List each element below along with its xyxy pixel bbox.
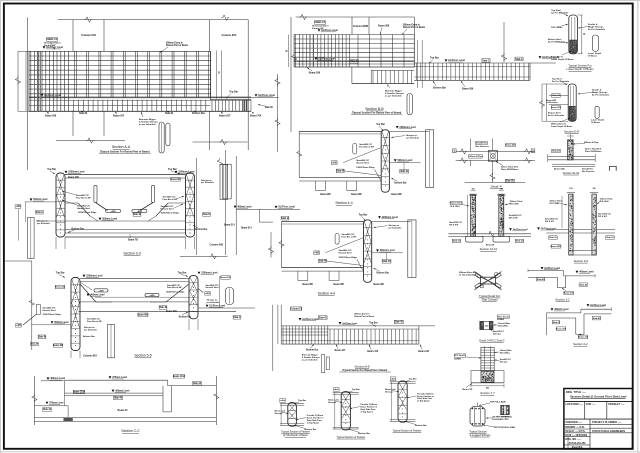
svg-text:Plate 250/250mm: Plate 250/250mm (585, 150, 602, 153)
svg-text:Beam-308: Beam-308 (309, 72, 321, 75)
svg-text:Beam-207: Beam-207 (219, 115, 231, 118)
svg-text:150: 150 (471, 189, 474, 191)
svg-text:Beam-55A: Beam-55A (554, 168, 565, 171)
svg-text:Top Bar: Top Bar (352, 389, 360, 391)
svg-text:Column-603B: Column-603B (353, 25, 369, 28)
svg-text:Bottom Bar: Bottom Bar (415, 424, 427, 427)
svg-text:TOP FULL BAR: TOP FULL BAR (490, 401, 506, 404)
svg-text:As Per Schedule: As Per Schedule (548, 41, 566, 44)
svg-text:D: D (286, 50, 288, 53)
svg-text:RCC Stud-C: RCC Stud-C (454, 354, 466, 357)
svg-text:Beam-9SC: Beam-9SC (137, 315, 149, 317)
svg-text:Section 7-7: Section 7-7 (480, 391, 495, 395)
svg-text:Face Bar at S/F: Face Bar at S/F (87, 320, 103, 323)
svg-text:S/F & S/F: S/F & S/F (545, 221, 555, 223)
svg-text:Beam-9W: Beam-9W (351, 194, 362, 196)
svg-text:Beam-238: Beam-238 (220, 277, 231, 279)
svg-text:Slab-40: Slab-40 (43, 408, 52, 411)
svg-text:Slab-U: Slab-U (553, 322, 560, 324)
svg-text:400mm Level: 400mm Level (579, 271, 594, 274)
svg-text:STRUCTURAL ENGINEERS: STRUCTURAL ENGINEERS (592, 429, 625, 433)
svg-text:Face Bar at S/F: Face Bar at S/F (76, 196, 92, 199)
svg-text:Beam-207: Beam-207 (113, 115, 125, 118)
svg-text:4-LEGGED CPPL: 4-LEGGED CPPL (492, 418, 509, 421)
svg-text:In Elevation: In Elevation (546, 101, 558, 104)
svg-text:(Typical Section For Raised Pa: (Typical Section For Raised Part of Beam… (100, 150, 150, 153)
svg-text:Beam-9W: Beam-9W (320, 194, 331, 196)
svg-text:400mm Level: 400mm Level (237, 205, 252, 208)
svg-text:Slab-D: Slab-D (203, 214, 211, 216)
svg-text:Slab-42: Slab-42 (319, 316, 328, 319)
svg-text:Bottom Bar: Bottom Bar (195, 228, 207, 231)
svg-text:Slab-55: Slab-55 (506, 181, 515, 183)
svg-text:Slab-42: Slab-42 (193, 382, 202, 385)
svg-text:Sheet N/A: Sheet N/A (572, 446, 583, 449)
svg-text:As Per Schedule: As Per Schedule (551, 11, 569, 14)
svg-text:Nut Fastener: Nut Fastener (582, 170, 595, 173)
svg-text:Top Bar: Top Bar (430, 57, 439, 60)
svg-text:Lower Depth Of Beam: Lower Depth Of Beam (551, 58, 574, 61)
svg-text:Slab-W: Slab-W (336, 171, 345, 173)
svg-text:Beam-9W: Beam-9W (303, 284, 314, 286)
svg-text:2200mm Level: 2200mm Level (399, 126, 416, 129)
svg-text:+4D0: +4D0 (110, 210, 116, 213)
svg-text:S/F & S/F: S/F & S/F (449, 224, 459, 226)
svg-text:GL/Floor Level: GL/Floor Level (46, 46, 63, 49)
svg-text:Beam-214: Beam-214 (224, 223, 235, 226)
svg-text:1500/700mm Ridge: 1500/700mm Ridge (356, 167, 375, 169)
svg-text:DRAWN :— N.N.: DRAWN :— N.N. (565, 426, 584, 429)
svg-text:Section 5-5: Section 5-5 (134, 353, 151, 357)
svg-text:Section 10-10: Section 10-10 (480, 247, 498, 251)
svg-text:+4sb: +4sb (280, 399, 286, 402)
svg-text:Bottom Bar: Bottom Bar (433, 87, 446, 90)
svg-text:Lower Depth Of Beam: Lower Depth Of Beam (551, 125, 573, 128)
svg-text:Slab-C: Slab-C (350, 60, 358, 63)
svg-text:Beam-234: Beam-234 (55, 286, 66, 289)
svg-text:Haunch Steel: Haunch Steel (206, 286, 219, 289)
svg-text:Bottom Bar: Bottom Bar (358, 432, 370, 435)
svg-text:1500/700mm Ridge: 1500/700mm Ridge (78, 212, 97, 214)
svg-text:Haunch Steel: Haunch Steel (161, 207, 174, 210)
svg-text:Top Bar: Top Bar (178, 271, 187, 274)
svg-text:Stirrups: Stirrups (493, 332, 502, 335)
svg-text:S/F & S/F: S/F & S/F (509, 217, 519, 219)
svg-text:Bottom Bar: Bottom Bar (83, 335, 95, 338)
svg-text:Slab-W: Slab-W (319, 261, 328, 263)
svg-text:as per Schedule: as per Schedule (139, 124, 156, 126)
svg-text:RCC Stud-C: RCC Stud-C (497, 315, 510, 318)
svg-text:Section 1-1: Section 1-1 (555, 297, 570, 301)
svg-text:Slab-W: Slab-W (31, 344, 39, 346)
svg-text:per Schedule: per Schedule (37, 222, 51, 225)
svg-text:Slab-W: Slab-W (38, 337, 47, 339)
svg-text:Section 8-8: Section 8-8 (355, 365, 370, 369)
svg-text:+4sb: +4sb (334, 388, 340, 391)
svg-text:D50: D50 (486, 387, 489, 389)
svg-text:Slab-40: Slab-40 (537, 278, 545, 281)
svg-text:DATE :— 06/07/2009: DATE :— 06/07/2009 (565, 434, 587, 437)
svg-text:As Per Schedule: As Per Schedule (552, 80, 570, 83)
svg-text:Section C-C: Section C-C (121, 429, 140, 433)
svg-text:Beam-415: Beam-415 (367, 350, 378, 353)
svg-text:Beam-7W: Beam-7W (463, 389, 474, 391)
svg-text:+400: +400 (314, 251, 320, 254)
svg-text:150: 150 (592, 188, 595, 190)
svg-text:RCC Wall: RCC Wall (550, 203, 560, 205)
svg-text:as per Schedule: as per Schedule (302, 358, 319, 361)
svg-text:Beam-9W: Beam-9W (391, 194, 402, 196)
svg-text:Top Bar: Top Bar (56, 272, 65, 275)
svg-text:RCC Wall: RCC Wall (510, 203, 520, 205)
svg-text:Top Bar: Top Bar (409, 378, 417, 380)
svg-text:2200mm Level: 2200mm Level (382, 216, 399, 219)
svg-text:D: D (584, 33, 586, 36)
svg-text:Beam-306: Beam-306 (462, 88, 474, 91)
svg-text:Top Bar: Top Bar (229, 91, 238, 94)
svg-text:PROJECT :—: PROJECT :— (608, 402, 625, 406)
svg-text:Typical Section: Typical Section (469, 429, 487, 433)
svg-text:per Schedule: per Schedule (406, 136, 420, 139)
svg-text:Typical Section of Fasteer: Typical Section of Fasteer (337, 436, 366, 439)
svg-text:Typical Detail For: Typical Detail For (479, 294, 500, 298)
svg-text:400mm Level: 400mm Level (50, 377, 65, 380)
svg-text:Top Bar: Top Bar (369, 322, 378, 324)
svg-text:Section A-A: Section A-A (112, 145, 131, 149)
svg-text:Slab-42: Slab-42 (395, 321, 404, 324)
svg-text:Face Bar at S/F: Face Bar at S/F (342, 236, 358, 239)
svg-text:Typical Section For: Typical Section For (568, 63, 591, 67)
svg-text:400mm Level: 400mm Level (554, 308, 569, 311)
svg-text:Bottom Bar: Bottom Bar (377, 271, 389, 274)
svg-text:LOCATION :—: LOCATION :— (565, 402, 583, 406)
svg-text:50B/B C/C: 50B/B C/C (315, 22, 326, 24)
svg-text:Top Bar: Top Bar (47, 168, 56, 171)
svg-text:Nut Fastener: Nut Fastener (476, 145, 489, 148)
svg-text:Slab-10: Slab-10 (453, 241, 461, 243)
svg-text:CHECKED :—: CHECKED :— (565, 421, 582, 424)
svg-text:As Per Schedule: As Per Schedule (592, 94, 610, 97)
svg-text:Bottom Bar: Bottom Bar (72, 227, 84, 230)
svg-text:RCC Beam: RCC Beam (551, 27, 562, 29)
svg-text:+4sb: +4sb (391, 377, 397, 380)
svg-text:Plate 250/250mm: Plate 250/250mm (501, 168, 518, 171)
svg-text:Top Bar: Top Bar (298, 400, 306, 402)
svg-text:+D0: +D0 (485, 378, 489, 380)
svg-text:Slab-42: Slab-42 (593, 317, 601, 320)
svg-text:1500/700mm Ridge: 1500/700mm Ridge (339, 257, 358, 259)
svg-text:Beam-417: Beam-417 (335, 349, 346, 352)
svg-text:Beam-55A: Beam-55A (505, 144, 516, 147)
svg-text:2200mm Level: 2200mm Level (86, 275, 103, 278)
svg-text:Beam-W: Beam-W (486, 244, 494, 246)
svg-text:400mm Level: 400mm Level (90, 294, 105, 297)
svg-text:@ Eqt Space: @ Eqt Space (417, 400, 430, 403)
svg-text:Section 3-3: Section 3-3 (123, 252, 140, 256)
svg-text:Slab-C: Slab-C (233, 317, 241, 319)
svg-text:GL/Floor Level: GL/Floor Level (448, 59, 465, 62)
svg-text:GL/Floor Level: GL/Floor Level (258, 94, 275, 97)
svg-text:@ Eqt Space: @ Eqt Space (307, 421, 320, 424)
svg-text:Beam-9W: Beam-9W (334, 284, 345, 286)
svg-text:Beam-306: Beam-306 (378, 25, 390, 28)
svg-text:+4D0: +4D0 (98, 289, 104, 292)
svg-text:Raised Part of Beam: Raised Part of Beam (403, 26, 425, 29)
svg-text:Slab-24: Slab-24 (400, 170, 409, 173)
svg-text:per Schedule: per Schedule (389, 227, 403, 230)
svg-text:230MM: 230MM (454, 358, 461, 360)
svg-text:Slab-W: Slab-W (133, 214, 142, 216)
svg-text:2200mm Level: 2200mm Level (178, 171, 195, 174)
svg-text:Beam-9W: Beam-9W (53, 345, 64, 347)
svg-text:Column 604: Column 604 (81, 33, 96, 37)
svg-text:Column 608: Column 608 (210, 243, 224, 246)
svg-text:+400: +400 (16, 324, 22, 327)
svg-text:2200mm Level: 2200mm Level (68, 171, 85, 174)
svg-text:Typical Section of Fasteer: Typical Section of Fasteer (393, 429, 422, 432)
svg-text:Slab-W: Slab-W (159, 307, 168, 309)
svg-text:Slab-W: Slab-W (165, 112, 174, 115)
svg-text:per Schedule: per Schedule (84, 329, 98, 332)
svg-text:Slab-40: Slab-40 (114, 397, 123, 400)
svg-text:Slab Cutroad: Slab Cutroad (482, 297, 498, 301)
svg-text:Column 604: Column 604 (222, 33, 237, 37)
svg-text:230MM: 230MM (497, 319, 504, 321)
svg-text:Top Bar: Top Bar (168, 168, 177, 171)
svg-text:Detail Of RCC Stud-C: Detail Of RCC Stud-C (479, 339, 504, 343)
svg-text:GL/Floor Level: GL/Floor Level (321, 29, 338, 32)
svg-text:Section D-D: Section D-D (564, 129, 579, 133)
svg-text:150mm Thick: 150mm Thick (450, 203, 464, 205)
svg-text:Beam-050: Beam-050 (551, 107, 562, 109)
svg-text:1500/700mm Ridge: 1500/700mm Ridge (43, 314, 62, 316)
svg-text:Slab-42: Slab-42 (580, 283, 588, 286)
svg-text:S/F & S/F: S/F & S/F (598, 216, 608, 218)
svg-text:Slab-10: Slab-10 (549, 237, 557, 239)
svg-text:Top Bar: Top Bar (376, 123, 385, 126)
svg-text:Beam-9W: Beam-9W (374, 284, 385, 286)
svg-text:Slab-W: Slab-W (265, 106, 274, 109)
svg-text:as per Schedule: as per Schedule (385, 96, 402, 98)
svg-text:280mm A Pipe: 280mm A Pipe (584, 141, 599, 144)
svg-text:Beam-W10: Beam-W10 (550, 246, 562, 248)
svg-text:Face Bar at S/F: Face Bar at S/F (359, 146, 375, 149)
svg-text:Slab-B: Slab-B (281, 218, 289, 220)
svg-text:M.S. Wall: M.S. Wall (600, 201, 609, 203)
svg-text:Slab-10: Slab-10 (516, 241, 524, 243)
svg-text:4-Legged Stirrups: 4-Legged Stirrups (470, 433, 491, 437)
svg-text:Beam-704: Beam-704 (250, 115, 262, 118)
svg-text:500mm Level: 500mm Level (397, 159, 412, 162)
svg-text:(Typical Section For Raised Pa: (Typical Section For Raised Part of Beam… (342, 369, 387, 372)
svg-text:+4D0: +4D0 (149, 294, 155, 297)
svg-text:Slab-D4: Slab-D4 (382, 260, 391, 263)
svg-text:Haunch Steel: Haunch Steel (356, 162, 369, 165)
svg-text:per Schedule: per Schedule (207, 301, 221, 304)
svg-text:Beam-2f8: Beam-2f8 (171, 179, 182, 181)
svg-text:D: D (218, 71, 220, 74)
svg-text:(Typical Section For Raised Pa: (Typical Section For Raised Part of Beam… (352, 111, 402, 114)
svg-text:Beam-7B: Beam-7B (128, 239, 138, 241)
svg-text:@ Mid-Depth of Beam: @ Mid-Depth of Beam (283, 434, 308, 437)
svg-text:Slab-60: Slab-60 (552, 151, 560, 153)
svg-text:per Schedule: per Schedule (201, 181, 215, 184)
svg-text:Raised Part of Beam: Raised Part of Beam (166, 44, 188, 47)
svg-text:Beam-110: Beam-110 (578, 337, 589, 339)
svg-text:Beam-110: Beam-110 (564, 293, 575, 295)
svg-text:1500/700mm Ridge: 1500/700mm Ridge (166, 291, 185, 293)
svg-text:Raised Part of Beam: Raised Part of Beam (354, 315, 374, 318)
svg-text:1500/700mm Ridge: 1500/700mm Ridge (161, 212, 180, 214)
svg-text:Section 2-2: Section 2-2 (573, 342, 588, 346)
svg-text:Slab-C: Slab-C (515, 58, 523, 61)
svg-text:Beam-118: Beam-118 (418, 351, 429, 353)
svg-text:Stirrups: Stirrups (500, 360, 509, 363)
svg-text:2200mm Level: 2200mm Level (201, 272, 218, 275)
svg-text:Bottom Bar: Bottom Bar (192, 112, 205, 115)
svg-text:Haunch Steel: Haunch Steel (43, 309, 56, 312)
svg-text:500mm Level: 500mm Level (102, 217, 117, 220)
svg-text:Beam-40: Beam-40 (118, 409, 129, 412)
svg-text:Haunch Steel: Haunch Steel (339, 252, 352, 255)
svg-text:M.S. Wall: M.S. Wall (451, 206, 460, 208)
svg-text:Of Beam: Of Beam (588, 56, 597, 58)
svg-text:Beam-70S: Beam-70S (556, 328, 567, 330)
svg-text:Slab-04: Slab-04 (552, 94, 560, 97)
svg-text:Beam-206: Beam-206 (45, 115, 57, 118)
svg-text:As Per Schedule: As Per Schedule (548, 114, 565, 117)
svg-text:GL/Floor Level: GL/Floor Level (318, 57, 335, 60)
svg-text:275mm Level: 275mm Level (112, 376, 127, 379)
svg-text:Beam-110A: Beam-110A (173, 375, 186, 378)
svg-text:100mm A Pipe: 100mm A Pipe (468, 155, 483, 158)
svg-text:Face Bar at S/F: Face Bar at S/F (163, 198, 179, 201)
svg-text:Section 4-4: Section 4-4 (335, 201, 352, 205)
svg-text:Sections Detail @ Ground Floor: Sections Detail @ Ground Floor Slab Leve… (570, 395, 627, 399)
svg-text:Slab-C: Slab-C (36, 212, 44, 214)
svg-text:50B/B C/C: 50B/B C/C (47, 39, 58, 41)
svg-text:Bottom Bar: Bottom Bar (306, 348, 318, 351)
svg-text:Section B-B: Section B-B (365, 107, 384, 111)
svg-text:Bottom Bar: Bottom Bar (179, 316, 191, 319)
svg-text:Column-C8: Column-C8 (290, 308, 303, 310)
svg-text:Bottom Bar: Bottom Bar (394, 181, 406, 184)
svg-text:500mm Level: 500mm Level (380, 249, 395, 252)
svg-text:Lower Depth Of Beam: Lower Depth Of Beam (566, 67, 594, 71)
svg-text:+400: +400 (15, 205, 21, 208)
svg-text:50m@Max: 50m@Max (498, 326, 509, 328)
svg-text:Of Beam: Of Beam (591, 122, 600, 124)
svg-text:Haunch Steel: Haunch Steel (77, 207, 90, 210)
svg-text:Typical Section of Fasteer: Typical Section of Fasteer (281, 430, 310, 433)
svg-text:Beam-214: Beam-214 (241, 227, 252, 230)
svg-text:BOTTOM FULL BAR: BOTTOM FULL BAR (494, 426, 515, 429)
svg-text:GL/Floor Level: GL/Floor Level (44, 94, 61, 97)
svg-text:FOR :—: FOR :— (586, 402, 596, 406)
svg-text:50m@Max: 50m@Max (500, 353, 511, 355)
svg-text:DRG. TITLE :—: DRG. TITLE :— (566, 390, 586, 394)
svg-text:PROJECT PLANNER :—: PROJECT PLANNER :— (592, 420, 622, 424)
svg-text:Beam-209: Beam-209 (166, 311, 177, 313)
svg-text:Top Bar: Top Bar (359, 213, 368, 216)
svg-text:Section 61-61: Section 61-61 (563, 171, 580, 175)
svg-text:Section 4-4: Section 4-4 (318, 291, 335, 295)
svg-text:@ Eqt Space: @ Eqt Space (361, 410, 374, 413)
svg-text:GL/Floor Level: GL/Floor Level (278, 206, 295, 209)
svg-text:Slab-10: Slab-10 (606, 237, 614, 239)
svg-text:As Per Schedule: As Per Schedule (588, 28, 606, 31)
svg-text:150: 150 (500, 189, 503, 191)
svg-text:ALPHA-201-456: ALPHA-201-456 (569, 442, 587, 445)
svg-text:Slab-W: Slab-W (79, 112, 88, 115)
svg-text:+400: +400 (332, 161, 338, 164)
svg-text:Beam-208: Beam-208 (68, 177, 79, 179)
svg-text:Section 9-9: Section 9-9 (574, 259, 589, 263)
svg-text:400mm Level: 400mm Level (115, 389, 130, 392)
svg-text:SCALE :— N.T.S.: SCALE :— N.T.S. (565, 430, 585, 433)
svg-text:+400: +400 (205, 292, 211, 295)
svg-text:Stee#E Hex: Stee#E Hex (476, 142, 489, 145)
svg-text:Face Bar at S/F: Face Bar at S/F (167, 286, 183, 289)
svg-text:Slab-C: Slab-C (482, 59, 490, 62)
svg-text:Column-603: Column-603 (83, 355, 97, 358)
svg-text:150: 150 (569, 188, 572, 190)
